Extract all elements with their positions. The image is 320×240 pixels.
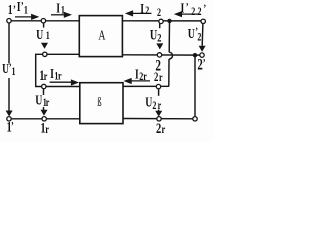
arrowhead U1r (down)	[41, 110, 48, 116]
voltage U'2 label	[188, 25, 202, 44]
svg-text:I: I	[140, 0, 144, 16]
node 1r top	[42, 84, 46, 88]
wire: vertical hop detour around second-row wire	[169, 52, 172, 59]
svg-text:r: r	[158, 100, 162, 113]
wire: vertical continuing down to I2r row corner	[168, 59, 170, 86]
svg-text:U: U	[35, 92, 42, 108]
node 1r bottom	[42, 117, 46, 121]
current I1 arrow line	[51, 14, 66, 16]
voltage U1r label	[35, 92, 49, 110]
node label 1r (middle row)	[39, 66, 48, 83]
wire: 1r row into block B lower-left input	[36, 86, 80, 88]
wire: vertical right from middle junction dot down to node 2' bottom	[194, 55, 196, 116]
current I'1 arrow line	[15, 16, 33, 18]
wire: stub below node 2 for U2	[159, 23, 161, 28]
svg-text:I: I	[56, 0, 60, 16]
arrowhead I1r (right)	[71, 79, 79, 85]
svg-text:2: 2	[197, 31, 201, 44]
svg-text:I: I	[181, 0, 185, 16]
wire: second row right, block A lower-right through crossing to node 2'	[122, 54, 201, 56]
wire: left vertical from node 1 down to node 1'	[8, 23, 10, 111]
node label 2 (middle row)	[155, 56, 161, 73]
block B (feedback two-port)	[80, 83, 123, 124]
voltage U2r label	[145, 94, 161, 113]
junction dot on middle-right wire	[193, 53, 197, 57]
svg-text:2: 2	[152, 100, 156, 113]
current I'2 label	[181, 0, 196, 19]
terminal label 1r (bottom)	[40, 119, 49, 137]
wire: I2r row from block B right to corner	[123, 85, 169, 87]
svg-text:1: 1	[46, 30, 50, 43]
svg-text:1: 1	[24, 4, 28, 17]
wire: stem from node 2r down to U2r arrow	[158, 89, 160, 112]
current I'1 label	[17, 0, 28, 17]
svg-text:2: 2	[198, 6, 202, 19]
node 2' bottom	[193, 117, 197, 121]
block A (amplifier two-port)	[79, 16, 122, 57]
svg-text:r: r	[45, 124, 49, 137]
svg-text:1: 1	[12, 66, 16, 79]
arrowhead I'2 (left)	[174, 11, 182, 17]
wire: top-left from node 1 to block A	[11, 20, 79, 22]
terminal label 2' (top)	[198, 3, 207, 19]
current I1 label	[56, 0, 65, 17]
svg-text:U: U	[150, 27, 157, 43]
svg-text:2: 2	[156, 119, 161, 136]
svg-text:2: 2	[157, 32, 161, 45]
svg-text:r: r	[159, 72, 163, 85]
svg-text:I: I	[50, 65, 54, 81]
wire: bracket vertical joining U1 row to 1r row	[35, 54, 37, 88]
arrowhead U'2 (down)	[199, 46, 206, 52]
svg-text:r: r	[58, 70, 62, 83]
arrowhead U'1 (down)	[6, 111, 13, 117]
current I2 label	[140, 0, 149, 18]
wire: second row left, U1 node to block A lower-left	[36, 53, 80, 55]
svg-text:U: U	[36, 26, 43, 42]
node at A input top (U1 plus)	[41, 19, 45, 23]
node 2r middle	[156, 84, 160, 88]
svg-text:A: A	[98, 27, 105, 43]
svg-text:1: 1	[61, 4, 65, 17]
wire: top-right from block A through node 2 to node 2'	[122, 20, 203, 22]
svg-text:I: I	[135, 67, 139, 82]
svg-text:2: 2	[191, 6, 195, 19]
node label 2r (middle row)	[154, 71, 163, 85]
svg-text:’: ’	[11, 120, 14, 133]
node label 2' (middle row)	[197, 56, 205, 73]
wire: vertical from top junction dot down to crossing hop	[168, 21, 170, 52]
open node circles	[7, 19, 206, 122]
terminal label 2 (top)	[157, 7, 161, 20]
arrowhead U2 (down)	[156, 43, 163, 49]
node 2' middle	[200, 53, 204, 57]
node 2 middle	[157, 53, 161, 57]
terminal label 1' (bottom)	[7, 117, 14, 134]
arrowhead I2 (left)	[125, 10, 133, 16]
svg-text:’: ’	[186, 1, 189, 14]
svg-text:2: 2	[157, 7, 161, 20]
wire: stub below A-input node for U1	[43, 23, 45, 28]
arrowhead I'1 (right)	[31, 14, 39, 20]
arrowhead I2r (left)	[124, 78, 132, 84]
voltage U1 label	[36, 26, 50, 43]
svg-text:U: U	[188, 25, 195, 41]
current I2r label	[135, 67, 147, 84]
node 1	[7, 19, 11, 23]
label background patches over stems	[1, 64, 163, 110]
svg-text:r: r	[143, 71, 147, 84]
arrowhead U2r (down)	[155, 111, 162, 117]
svg-text:r: r	[46, 97, 50, 110]
arrowhead I1 (right)	[64, 12, 72, 18]
wire: bottom-left from node 1' through node 1r to block B	[9, 118, 80, 120]
wire: stem from node 2' top for U'2	[201, 23, 204, 46]
svg-text:’: ’	[203, 3, 206, 16]
current I1r label	[50, 65, 62, 83]
svg-text:r: r	[44, 71, 48, 84]
wire: stem from node 1r down to U1r arrow	[43, 89, 45, 110]
terminal label 1 (top left) with comma	[8, 1, 16, 17]
node 2r bottom	[157, 117, 161, 121]
svg-text:’: ’	[203, 57, 206, 70]
svg-text:2: 2	[154, 71, 158, 85]
svg-text:ß: ß	[97, 96, 101, 110]
svg-text:2: 2	[145, 5, 149, 18]
arrowhead U1 (down)	[41, 43, 48, 49]
node at A input bottom (U1 minus)	[43, 52, 47, 56]
node 2' top	[201, 19, 205, 23]
node 2 top	[159, 19, 163, 23]
svg-text:’: ’	[13, 4, 16, 17]
current I2 arrow line	[129, 12, 152, 14]
terminal label 2r (bottom)	[156, 119, 166, 137]
voltage U'1 label	[2, 61, 15, 78]
svg-text:r: r	[162, 124, 166, 137]
current I'2 arrow line	[178, 13, 200, 15]
svg-text:1: 1	[8, 1, 13, 17]
node 1'	[7, 117, 11, 121]
current I2r arrow line	[130, 80, 151, 82]
svg-text:U: U	[145, 94, 152, 110]
current I1r arrow line	[50, 81, 73, 83]
wire: bottom-right from block B through node 2r to node 2' bottom	[123, 118, 195, 120]
voltage U2 label	[150, 27, 162, 45]
junction dot on top wire	[167, 19, 171, 23]
